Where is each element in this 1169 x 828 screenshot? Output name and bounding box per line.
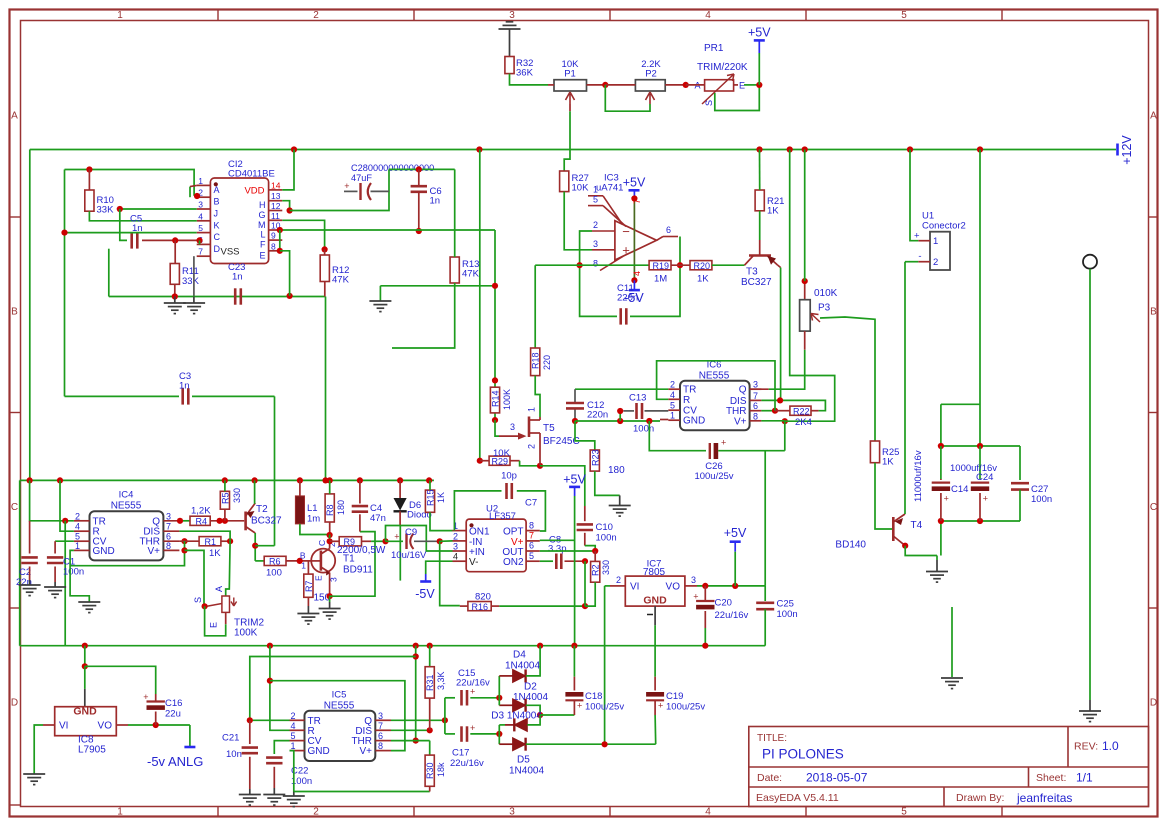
svg-text:3: 3 — [166, 511, 171, 521]
svg-text:C7: C7 — [525, 498, 537, 509]
wire R16 right — [499, 605, 585, 607]
wire C14 top lead — [940, 446, 942, 479]
svg-text:330: 330 — [601, 560, 611, 575]
IC4 pin stubs — [74, 521, 179, 551]
svg-text:22u/16v: 22u/16v — [456, 678, 490, 689]
wire V+ row to TRIM2 S — [185, 550, 205, 606]
junction R4 right — [217, 518, 223, 524]
svg-text:EasyEDA V5.4.11: EasyEDA V5.4.11 — [756, 792, 839, 804]
capacitor C17 — [445, 733, 455, 735]
svg-text:4: 4 — [290, 721, 295, 731]
capacitor C18 plates — [565, 692, 583, 697]
svg-text:+12V: +12V — [1120, 135, 1134, 165]
wire T3 emitter to IC6 DIS — [780, 268, 782, 401]
wire R21 to T3 — [759, 211, 761, 240]
wire to C3 drop — [255, 545, 274, 547]
svg-text:+: + — [721, 438, 726, 448]
svg-text:E: E — [259, 250, 265, 260]
svg-text:3: 3 — [753, 380, 758, 390]
svg-text:2: 2 — [933, 257, 938, 268]
resistor R20 — [690, 261, 712, 270]
capacitor C19 — [654, 677, 656, 691]
svg-text:3: 3 — [691, 575, 696, 585]
svg-text:10u/16V: 10u/16V — [391, 550, 427, 561]
svg-text:A: A — [11, 111, 18, 122]
svg-text:7: 7 — [166, 522, 171, 532]
junction L1 R8 — [327, 532, 333, 538]
junction pin6 row8 — [677, 262, 683, 268]
wire V+ pin7 to +5V stem — [540, 539, 575, 541]
wire TRIM2 S-E loop — [205, 606, 226, 636]
no-connect circle — [1083, 255, 1097, 269]
capacitor C26 — [709, 443, 711, 459]
svg-text:TITLE:: TITLE: — [757, 733, 787, 744]
svg-text:NE555: NE555 — [111, 501, 142, 512]
svg-text:Sheet:: Sheet: — [1036, 772, 1066, 784]
svg-text:J: J — [214, 209, 219, 219]
svg-text:2: 2 — [453, 531, 458, 541]
ground C1 — [44, 587, 66, 598]
svg-text:+: + — [983, 494, 988, 504]
svg-text:R14: R14 — [491, 390, 501, 407]
svg-text:D: D — [214, 244, 221, 254]
svg-text:R: R — [683, 395, 690, 406]
svg-text:PR1: PR1 — [704, 43, 724, 54]
svg-text:VSS: VSS — [221, 247, 240, 258]
wire +5V bus row D — [20, 645, 766, 647]
IC7 GND pin — [654, 606, 656, 625]
svg-text:3: 3 — [378, 711, 383, 721]
svg-text:R15: R15 — [425, 489, 435, 506]
junction pin2 net row8 — [577, 262, 583, 268]
svg-text:T3: T3 — [746, 267, 758, 278]
junction THR R1 — [181, 538, 187, 544]
svg-text:7: 7 — [378, 721, 383, 731]
junction V+ branch — [267, 678, 273, 684]
wire C5 right — [142, 239, 200, 241]
svg-text:VDD: VDD — [244, 186, 264, 197]
wire R25 to T4 base — [875, 463, 893, 529]
ground C21 — [239, 795, 261, 806]
resistor R30 — [429, 741, 431, 756]
svg-text:22u/16v: 22u/16v — [715, 610, 749, 621]
capacitor C15 — [444, 720, 446, 734]
resistor R23 — [590, 450, 599, 471]
svg-text:R4: R4 — [196, 516, 208, 526]
resistor R6 — [264, 556, 286, 565]
junction VI bus E — [602, 741, 608, 747]
resistor R18 — [531, 348, 540, 376]
svg-text:P3: P3 — [818, 303, 831, 314]
svg-text:8: 8 — [166, 541, 171, 551]
wire P2 wiper loop — [605, 85, 650, 111]
wire R4 to T2 base — [210, 520, 244, 522]
svg-text:2: 2 — [527, 444, 537, 449]
wire to IC5 V+ — [270, 681, 405, 751]
wire D6 to R9 node — [386, 526, 401, 542]
junction +5V PR1 — [756, 82, 762, 88]
wire C28 right to ground — [380, 285, 495, 287]
svg-text:3,3K: 3,3K — [436, 671, 446, 690]
wire C5 to R11 — [174, 240, 176, 263]
svg-text:4: 4 — [705, 807, 711, 818]
svg-text:B: B — [1150, 307, 1157, 318]
svg-text:F: F — [260, 240, 266, 250]
wire pin1 to pin2 — [189, 187, 191, 198]
svg-text:E: E — [314, 575, 324, 581]
svg-text:IC4: IC4 — [119, 490, 134, 501]
svg-text:R8: R8 — [325, 504, 335, 516]
junction R10 top — [86, 166, 92, 172]
svg-text:VO: VO — [666, 582, 681, 593]
svg-text:S: S — [704, 100, 714, 106]
resistor R4 — [190, 516, 210, 525]
svg-text:1: 1 — [933, 236, 938, 247]
wire C14 feed jog — [941, 403, 980, 405]
wire bus D to IC5 R pin — [270, 646, 290, 731]
wire pin2 net down to C3 — [64, 170, 66, 397]
svg-text:IC5: IC5 — [332, 690, 347, 701]
svg-text:4: 4 — [198, 211, 203, 221]
svg-text:14: 14 — [271, 180, 281, 190]
junction bus P3 — [802, 146, 808, 152]
capacitor C4 plates — [352, 506, 368, 512]
junction R5 bottom — [222, 518, 228, 524]
capacitor C12 — [574, 389, 576, 402]
wire T4 to ground rail — [905, 546, 937, 556]
svg-text:180: 180 — [608, 465, 625, 476]
wire C14 bottom rail — [941, 520, 1020, 522]
U2 pin stubs — [453, 531, 540, 562]
wire R32 to P1 — [510, 74, 549, 85]
svg-text:+: + — [470, 723, 475, 733]
junction C6 bottom — [416, 228, 422, 234]
resistor R2 body — [591, 561, 600, 582]
svg-text:-5v ANLG: -5v ANLG — [147, 754, 203, 769]
capacitor C8 — [540, 560, 553, 562]
capacitor C3 plates — [183, 388, 189, 404]
svg-text:100n: 100n — [777, 609, 798, 620]
wire D6 to +IN — [400, 526, 452, 552]
junction bus D IC5 branch — [267, 643, 273, 649]
junction THR — [772, 408, 778, 414]
wire VO row — [697, 585, 765, 587]
svg-text:BD911: BD911 — [343, 565, 373, 576]
svg-text:D4: D4 — [513, 650, 526, 661]
wire pin3 to C5 — [120, 209, 127, 240]
svg-text:1: 1 — [670, 411, 675, 421]
wire V+ to C26 — [784, 421, 786, 451]
svg-text:Drawn By:: Drawn By: — [956, 792, 1004, 804]
junction R11 bottom — [172, 293, 178, 299]
svg-text:VO: VO — [98, 721, 113, 732]
svg-text:7805: 7805 — [643, 567, 666, 578]
svg-text:C: C — [1150, 502, 1157, 513]
junction bus R8 — [327, 477, 333, 483]
diode D3 symbol — [514, 718, 527, 731]
resistor R31 body — [425, 667, 434, 698]
wire R14 to gate — [495, 420, 499, 436]
svg-text:5: 5 — [198, 223, 203, 233]
svg-text:TR: TR — [93, 516, 106, 527]
junction C9 right -IN — [437, 538, 443, 544]
junction bus D6 — [397, 477, 403, 483]
junction +5V pin7 — [631, 195, 637, 201]
capacitor C13 — [619, 411, 621, 421]
svg-text:1: 1 — [117, 10, 123, 21]
svg-text:-: - — [918, 251, 921, 262]
capacitor C21 — [249, 720, 251, 744]
svg-text:Conector2: Conector2 — [922, 221, 966, 232]
svg-text:jeanfreitas: jeanfreitas — [1016, 791, 1072, 805]
wire L1 bottom — [300, 524, 330, 535]
junction T1 base — [297, 558, 303, 564]
svg-text:BD140: BD140 — [835, 540, 866, 551]
svg-text:P1: P1 — [564, 69, 576, 80]
wire IC7 GND down to C19 — [654, 625, 656, 676]
svg-text:R7: R7 — [304, 580, 314, 592]
IC IC8 L7905 — [84, 689, 86, 707]
wire P1 wiper — [569, 104, 571, 111]
svg-text:8: 8 — [271, 241, 276, 251]
junction TR drop — [62, 518, 68, 524]
wire D3 left — [499, 724, 505, 726]
wire bus to U1 pin1 — [910, 150, 918, 241]
ground right side — [1079, 711, 1101, 722]
svg-text:C9: C9 — [405, 527, 417, 538]
svg-text:R31: R31 — [425, 674, 435, 691]
wire VI left — [605, 585, 610, 587]
wire R13 bottom — [392, 283, 455, 348]
svg-text:GND: GND — [93, 546, 115, 557]
ground below R11 — [164, 303, 186, 314]
svg-text:R2: R2 — [591, 564, 601, 576]
resistor R22 — [775, 410, 790, 412]
capacitor C4 — [359, 480, 361, 503]
wire P3 wiper to R25 — [820, 317, 875, 441]
resistor R12 — [320, 255, 329, 282]
svg-text:R6: R6 — [269, 557, 281, 567]
junction R14 bottom — [492, 417, 498, 423]
ground C2 — [19, 585, 41, 596]
svg-text:2: 2 — [616, 575, 621, 585]
svg-text:GND: GND — [683, 416, 705, 427]
wire emitter to C4 — [330, 532, 375, 597]
svg-text:2018-05-07: 2018-05-07 — [806, 771, 868, 785]
svg-text:BC327: BC327 — [741, 277, 772, 288]
resistor R2 — [594, 551, 596, 561]
wire to C18 bottom — [540, 714, 574, 716]
svg-text:33K: 33K — [97, 205, 115, 216]
wire T1 collector — [329, 541, 331, 548]
wire bus to C14 block — [979, 150, 981, 447]
svg-text:C: C — [11, 502, 18, 513]
svg-text:1: 1 — [301, 561, 306, 571]
diode D2 symbol — [513, 699, 526, 712]
junction pin8 — [277, 248, 283, 254]
svg-text:B: B — [300, 551, 306, 561]
svg-text:22u: 22u — [165, 709, 181, 720]
capacitor C10 plates — [577, 524, 593, 530]
svg-text:E: E — [209, 622, 219, 628]
junction bus L1 — [297, 477, 303, 483]
junction bus IC6 V+ — [787, 146, 793, 152]
wire R1 to TRIM2 A — [226, 541, 230, 596]
wire C3 right — [192, 395, 275, 397]
svg-text:1: 1 — [593, 185, 598, 195]
svg-text:100K: 100K — [502, 389, 512, 410]
junction C8 right — [582, 558, 588, 564]
svg-text:REV:: REV: — [1074, 741, 1098, 753]
svg-text:13: 13 — [271, 191, 281, 201]
junction ground branch — [492, 283, 498, 289]
junction -5V pin4 — [631, 277, 637, 283]
junction C6 top — [416, 166, 422, 172]
svg-text:BC327: BC327 — [251, 516, 282, 527]
junction bus VSS drop — [322, 477, 328, 483]
svg-text:R30: R30 — [425, 762, 435, 779]
svg-text:6: 6 — [529, 541, 534, 551]
wire pin3 row — [120, 208, 197, 210]
wire +5V stem to bus D — [574, 496, 576, 646]
svg-text:R16: R16 — [472, 602, 489, 612]
svg-text:8: 8 — [378, 741, 383, 751]
wire pin10 row to R14 — [280, 229, 495, 231]
svg-text:22u/16v: 22u/16v — [450, 758, 484, 769]
wire mid bus row C — [20, 479, 434, 481]
svg-text:5: 5 — [670, 401, 675, 411]
wire -IN row — [440, 540, 453, 542]
ground IC5 — [283, 796, 305, 807]
capacitor C18 — [573, 646, 575, 677]
junction P3 top — [802, 278, 808, 284]
capacitor C27 — [1019, 446, 1021, 480]
junction T1 emitter — [327, 593, 333, 599]
wire IC5 GND to R30 — [294, 791, 430, 793]
wire IC5 Q row — [391, 719, 445, 721]
svg-text:2: 2 — [313, 807, 319, 818]
resistor R16 — [468, 602, 491, 611]
junction bus CI2 pin14 — [291, 146, 297, 152]
wire OUT row — [540, 550, 595, 552]
svg-text:1: 1 — [117, 807, 123, 818]
op-amp power rail pins 7 and 4 — [633, 199, 635, 281]
wire VO row — [128, 724, 190, 726]
svg-text:47K: 47K — [332, 275, 350, 286]
junction pin8 drop — [287, 293, 293, 299]
svg-text:2K4: 2K4 — [795, 417, 812, 428]
svg-text:+: + — [577, 701, 582, 711]
wire T5 source down — [539, 446, 541, 466]
svg-text:K: K — [214, 220, 220, 230]
resistor R22 body — [790, 406, 811, 415]
svg-text:3: 3 — [453, 542, 458, 552]
net +5V at PR1 — [754, 39, 765, 42]
wire Q row to R4 — [179, 520, 190, 522]
ground C22 — [263, 795, 285, 806]
wire THR row to R30 — [391, 740, 430, 742]
junction DIS R31 — [427, 727, 433, 733]
capacitor C5 — [132, 232, 138, 248]
junction pin5 left — [61, 230, 67, 236]
junction R14 top — [492, 377, 498, 383]
ground below VSS — [183, 303, 205, 314]
svg-text:3: 3 — [593, 239, 598, 249]
wire NC circle down — [1089, 269, 1091, 700]
wire R23 to ground — [595, 471, 620, 495]
ground top — [499, 22, 521, 29]
svg-text:M: M — [258, 220, 266, 230]
capacitor C25 — [764, 586, 766, 601]
svg-text:1K: 1K — [697, 274, 709, 285]
svg-text:47K: 47K — [462, 269, 480, 280]
junction bus D +5V stem — [571, 643, 577, 649]
wire TR node down — [64, 521, 66, 646]
svg-text:+5V: +5V — [748, 25, 771, 39]
junction C12 bottom — [572, 418, 578, 424]
capacitor C2 plates — [21, 557, 37, 563]
junction OUT R2 — [592, 548, 598, 554]
wire C1 to CV — [55, 540, 74, 542]
svg-text:4: 4 — [453, 552, 458, 562]
junction bus U1 — [907, 146, 913, 152]
svg-text:R1: R1 — [205, 537, 217, 547]
junction TR C21 — [247, 717, 253, 723]
junction bus R21 — [756, 146, 762, 152]
svg-text:100K: 100K — [234, 628, 258, 639]
svg-text:2: 2 — [593, 220, 598, 230]
svg-text:6: 6 — [666, 225, 671, 235]
wire PR1 S loop — [715, 85, 760, 111]
capacitor C16 plates — [147, 700, 165, 702]
junction C15 D4 D2 — [496, 695, 502, 701]
wire bus to IC6 V+ loop — [785, 150, 835, 422]
junction C26 left — [646, 418, 652, 424]
junction R16 R2 C8 — [582, 603, 588, 609]
junction TRIM2 S — [202, 603, 208, 609]
svg-text:5: 5 — [290, 731, 295, 741]
svg-text:100: 100 — [266, 568, 282, 579]
resistor R11 — [170, 264, 179, 285]
capacitor C3 — [65, 395, 180, 397]
svg-text:10n: 10n — [226, 749, 242, 760]
transistor T4 BD140 — [893, 514, 905, 546]
capacitor C20 — [704, 586, 706, 601]
svg-text:1K: 1K — [882, 457, 894, 468]
svg-text:D5: D5 — [517, 755, 530, 766]
svg-text:5: 5 — [901, 807, 907, 818]
wire -IN to R16 — [440, 541, 460, 605]
wire P1 wiper to R27 — [564, 111, 570, 171]
junction C16 branch — [82, 663, 88, 669]
resistor R21 — [755, 190, 764, 211]
svg-text:H: H — [259, 200, 266, 210]
svg-text:B: B — [214, 197, 220, 207]
IC IC5 NE555 — [305, 711, 376, 761]
wire PR1 E to +5V — [744, 84, 759, 86]
svg-text:100u/25v: 100u/25v — [694, 471, 733, 482]
wire IC6 THR loop to R pin — [761, 410, 775, 412]
svg-text:D: D — [11, 698, 18, 709]
wire VI to ground — [34, 725, 43, 774]
junction D2 D3 C18 — [537, 712, 543, 718]
ground IC4 — [78, 602, 100, 613]
wire R19-R20 — [671, 264, 690, 266]
junction C16 VO — [153, 722, 159, 728]
svg-text:P2: P2 — [645, 69, 657, 80]
connector U1 Conector2 — [930, 232, 950, 270]
svg-text:L1: L1 — [307, 503, 318, 514]
